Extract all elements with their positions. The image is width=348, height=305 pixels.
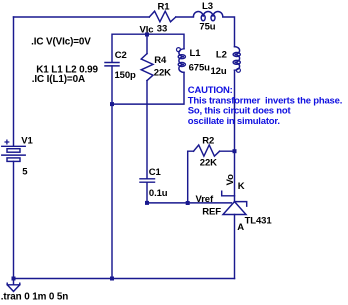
- capacitor C2: [105, 63, 119, 66]
- svg-text:Vref: Vref: [196, 194, 214, 205]
- svg-text:.IC I(L1)=0A: .IC I(L1)=0A: [32, 74, 85, 85]
- svg-text:L2: L2: [216, 50, 227, 61]
- svg-text:.IC V(VIc)=0V: .IC V(VIc)=0V: [31, 36, 91, 47]
- svg-text:TL431: TL431: [245, 215, 273, 226]
- svg-text:C1: C1: [149, 167, 162, 178]
- svg-text:R1: R1: [158, 1, 171, 12]
- wire: [234, 215, 236, 279]
- wire: [176, 16, 194, 18]
- capacitor C1: [140, 179, 155, 182]
- svg-text:A: A: [237, 222, 244, 233]
- svg-text:K: K: [238, 181, 245, 192]
- phase dot L2: [236, 68, 240, 72]
- inductor L3: [193, 11, 222, 16]
- inductor L1: [179, 49, 184, 73]
- svg-text:22K: 22K: [200, 157, 217, 168]
- wire VIc rail: [112, 34, 184, 62]
- svg-text:CAUTION:: CAUTION:: [188, 85, 233, 96]
- svg-text:L1: L1: [190, 48, 202, 59]
- svg-text:VIc: VIc: [140, 25, 154, 36]
- op-amp U1 : TL431 shunt regulator symbol: [222, 191, 235, 196]
- resistor R2: [194, 145, 220, 156]
- ground: [13, 279, 15, 285]
- svg-text:R4: R4: [154, 55, 167, 66]
- svg-text:675u: 675u: [189, 62, 211, 73]
- svg-text:75u: 75u: [199, 21, 215, 32]
- wire: [13, 17, 15, 146]
- wire mid ground rail: [112, 72, 184, 104]
- wire: [188, 151, 194, 203]
- resistor R4: [141, 54, 153, 81]
- wire: [234, 70, 236, 201]
- svg-text:C2: C2: [115, 50, 127, 61]
- svg-text:Vo: Vo: [225, 174, 236, 186]
- junction C2/ground rail: [110, 102, 114, 106]
- wire: [223, 17, 235, 47]
- node Vref junction at C1: [145, 201, 149, 205]
- svg-text:5: 5: [22, 166, 28, 177]
- phase dot L1: [177, 48, 181, 52]
- svg-text:R2: R2: [202, 135, 214, 146]
- junction bottom-left: [12, 277, 16, 281]
- wire: [111, 66, 113, 279]
- wire: [14, 278, 235, 280]
- svg-text:150p: 150p: [115, 70, 137, 81]
- inductor L2: [235, 47, 240, 71]
- svg-text:L3: L3: [202, 1, 213, 12]
- svg-text:V1: V1: [21, 135, 33, 146]
- svg-text:This transformer inverts the: This transformer inverts the phase.: [188, 95, 342, 106]
- svg-text:12u: 12u: [211, 66, 227, 77]
- svg-text:.tran 0 1m 0 5n: .tran 0 1m 0 5n: [1, 292, 68, 303]
- wire: [146, 81, 148, 179]
- wire: [220, 150, 235, 152]
- svg-text:0.1u: 0.1u: [149, 188, 168, 199]
- voltage source V1: [2, 145, 25, 147]
- svg-text:33: 33: [157, 24, 167, 35]
- wire: [14, 16, 150, 18]
- wire: [13, 161, 15, 278]
- svg-text:REF: REF: [202, 206, 221, 217]
- junction Vref/R2: [186, 201, 190, 205]
- wire: [146, 34, 148, 53]
- svg-text:22K: 22K: [154, 67, 171, 78]
- resistor R1: [149, 11, 176, 22]
- junction R2/output: [233, 149, 237, 153]
- junction bottom rail: [110, 277, 114, 281]
- wire: [147, 182, 231, 203]
- svg-text:So, this circuit does not: So, this circuit does not: [188, 106, 292, 117]
- svg-text:oscillate in simulator.: oscillate in simulator.: [188, 116, 280, 127]
- node VIc junction: [145, 33, 149, 37]
